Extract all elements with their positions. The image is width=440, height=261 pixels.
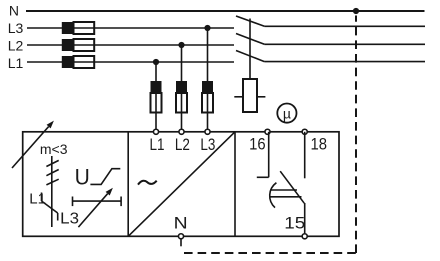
svg-text:L2: L2 xyxy=(8,38,24,54)
svg-text:L1: L1 xyxy=(150,135,165,154)
svg-text:L2: L2 xyxy=(175,135,190,154)
svg-text:m<3: m<3 xyxy=(40,141,68,157)
svg-text:16: 16 xyxy=(249,135,266,154)
svg-text:µ: µ xyxy=(283,105,291,121)
svg-text:N: N xyxy=(9,2,19,18)
svg-text:L1: L1 xyxy=(8,55,24,71)
svg-text:15: 15 xyxy=(284,214,305,233)
svg-text:U: U xyxy=(75,164,90,189)
svg-text:N: N xyxy=(174,214,188,233)
svg-text:18: 18 xyxy=(311,135,328,154)
svg-text:L3: L3 xyxy=(8,20,24,36)
svg-text:L3: L3 xyxy=(200,135,215,154)
svg-text:L1: L1 xyxy=(29,190,46,207)
svg-text:L3: L3 xyxy=(60,211,79,228)
